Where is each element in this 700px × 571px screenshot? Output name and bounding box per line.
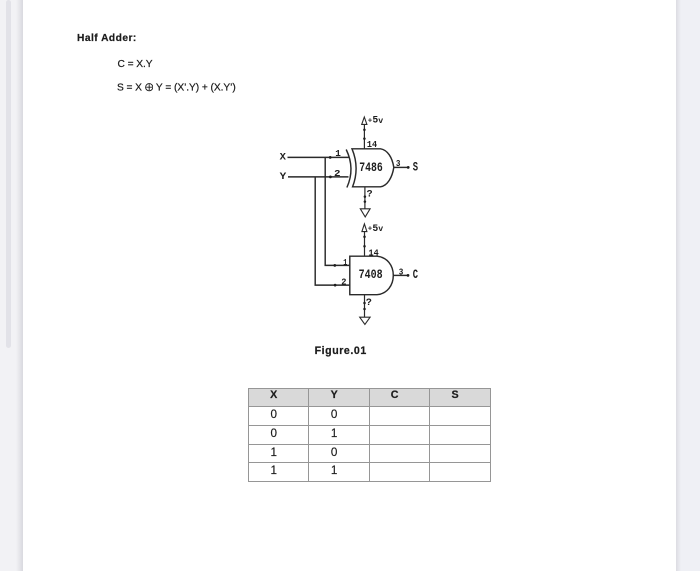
svg-text:Y: Y bbox=[280, 172, 288, 183]
svg-text:C: C bbox=[413, 267, 418, 282]
svg-text:X: X bbox=[280, 152, 286, 163]
svg-text:?: ? bbox=[366, 297, 372, 309]
svg-text:14: 14 bbox=[369, 247, 380, 258]
svg-text:1: 1 bbox=[335, 148, 341, 159]
svg-text:14: 14 bbox=[367, 139, 378, 150]
svg-text:2: 2 bbox=[334, 168, 341, 179]
svg-text:1: 1 bbox=[343, 257, 347, 268]
svg-text:7408: 7408 bbox=[359, 268, 383, 282]
svg-text:+5v: +5v bbox=[368, 223, 383, 234]
svg-text:?: ? bbox=[367, 188, 373, 200]
svg-text:3: 3 bbox=[396, 158, 401, 169]
svg-text:3: 3 bbox=[399, 267, 404, 278]
svg-text:+5v: +5v bbox=[368, 115, 383, 126]
svg-text:2: 2 bbox=[341, 276, 346, 287]
svg-text:7486: 7486 bbox=[359, 161, 383, 175]
svg-text:S: S bbox=[413, 159, 418, 174]
